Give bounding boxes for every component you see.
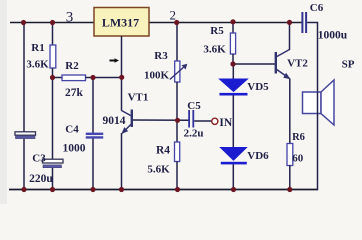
wire VD6 to ground rail — [232, 164, 234, 189]
svg-text:VD5: VD5 — [247, 81, 269, 93]
wire junction to R4 — [176, 120, 178, 142]
transistor Q1 VT1 (9014) — [121, 77, 132, 189]
svg-text:2: 2 — [169, 7, 176, 22]
wire C3 bottom — [52, 168, 54, 190]
wire C5 to IN terminal — [194, 120, 211, 122]
wire R1 bottom to junction — [52, 68, 54, 159]
svg-text:R4: R4 — [156, 144, 170, 156]
speaker SP — [303, 80, 335, 125]
node dot ground 7 — [287, 187, 292, 192]
op-amp U1 LM317 regulator box — [94, 8, 149, 37]
svg-text:60: 60 — [292, 152, 304, 164]
node dot ground 1 — [21, 187, 26, 192]
diode VD6 — [221, 148, 247, 165]
wire VT1 emitter vertical — [121, 133, 123, 190]
collector diagonal — [276, 50, 290, 58]
svg-text:R1: R1 — [31, 42, 44, 54]
emitter arrowhead — [121, 127, 128, 134]
wire R2 right to ADJ junction — [86, 77, 124, 79]
resistor R3 (adjustable) — [170, 61, 188, 82]
pin 1 arrow mark — [110, 58, 120, 63]
diode VD5 — [220, 79, 248, 96]
resistor R2 — [62, 75, 86, 81]
wire R1 column top — [52, 23, 54, 46]
resistor R1 — [50, 45, 56, 68]
svg-text:R3: R3 — [154, 50, 168, 62]
wire R6 bottom to ground rail — [289, 166, 291, 190]
wire VD5 to VD6 — [232, 96, 234, 148]
wire R2 row (y=77.5) — [53, 77, 63, 79]
wire VT2 emitter vertical — [289, 79, 291, 144]
node dot R2-C4 junction — [90, 75, 95, 80]
emitter diagonal — [122, 124, 132, 134]
svg-text:LM317: LM317 — [102, 16, 139, 30]
svg-text:3: 3 — [66, 9, 74, 25]
resistor R6 — [287, 144, 293, 166]
node dot ground 3 — [90, 187, 95, 192]
node dot top rail B — [50, 20, 55, 25]
wire base row to VT2 — [233, 63, 275, 65]
wire R3 bottom to junction — [176, 82, 178, 120]
wire top rail left segment — [10, 22, 94, 24]
svg-text:R5: R5 — [210, 25, 224, 37]
node dot ADJ junction — [119, 75, 124, 80]
svg-text:SP: SP — [342, 59, 355, 71]
transistor Q2 VT2 — [276, 23, 291, 144]
node dot ground 4 — [119, 187, 124, 192]
node dot R5-base junction — [230, 61, 235, 66]
svg-text:VT2: VT2 — [287, 57, 308, 69]
capacitor C6 — [301, 12, 307, 33]
node dot R1-R2 junction — [50, 75, 55, 80]
svg-text:9014: 9014 — [103, 115, 126, 127]
collector diagonal — [122, 111, 132, 117]
node dot ground 6 — [231, 187, 236, 192]
svg-text:R6: R6 — [292, 132, 305, 143]
node dot top rail E — [287, 20, 292, 25]
svg-text:100K: 100K — [144, 70, 170, 82]
base bar — [275, 52, 277, 74]
svg-text:5.6K: 5.6K — [147, 163, 170, 175]
capacitor C3 — [43, 159, 64, 168]
wire top rail right segment — [149, 22, 302, 24]
svg-text:27k: 27k — [65, 87, 84, 99]
node dot top rail C — [174, 20, 179, 25]
svg-text:C6: C6 — [310, 2, 324, 14]
svg-text:C3: C3 — [32, 152, 46, 164]
svg-text:220u: 220u — [29, 173, 53, 185]
svg-text:3.6K: 3.6K — [26, 58, 49, 70]
wire VT1 collector vertical — [121, 77, 123, 111]
svg-text:VT1: VT1 — [128, 91, 149, 103]
node dot ground 5 — [175, 187, 180, 192]
resistor R5 — [230, 33, 235, 54]
wire R5 column from top rail — [232, 23, 234, 34]
wire R5 bottom to base junction — [232, 54, 234, 64]
node dot input junction — [175, 118, 180, 123]
svg-text:VD6: VD6 — [247, 150, 269, 162]
capacitor C5 — [188, 110, 194, 128]
emitter diagonal — [276, 69, 290, 79]
node dot ground 2 — [50, 187, 55, 192]
wire bottom rail (ground) — [9, 189, 318, 191]
wire left column upper (x=24) — [23, 23, 25, 133]
svg-text:IN: IN — [219, 117, 232, 129]
node dot top rail D — [230, 19, 235, 24]
svg-text:C4: C4 — [65, 123, 79, 135]
svg-text:2.2u: 2.2u — [184, 128, 204, 140]
wire speaker to ground rail corner — [317, 114, 319, 191]
emitter arrowhead — [283, 73, 290, 80]
node dot top rail A — [21, 20, 26, 25]
wire C4 column upper — [92, 78, 94, 134]
wire VT2 collector vertical — [289, 23, 291, 51]
wire C6 output to speaker column — [307, 23, 317, 93]
wire C4 column lower — [92, 138, 94, 189]
node IN terminal circle — [212, 118, 218, 124]
wire R3 column from top rail — [176, 23, 178, 62]
svg-text:1000u: 1000u — [318, 29, 348, 41]
wire VT1 base to input junction — [133, 119, 189, 121]
left edge shading — [0, 0, 7, 204]
svg-text:C5: C5 — [187, 100, 201, 112]
svg-text:R2: R2 — [65, 60, 79, 72]
svg-text:3.6K: 3.6K — [203, 43, 226, 55]
base bar — [131, 110, 133, 128]
wire R4 bottom — [176, 162, 178, 190]
wire LM317 ADJ pin down — [121, 36, 123, 77]
wire left column lower (x=24) — [23, 139, 25, 190]
resistor R4 — [175, 142, 180, 162]
capacitor C (unlabeled, left column) — [15, 132, 36, 139]
wire junction to VD5 — [232, 64, 234, 79]
capacitor C4 — [86, 133, 103, 139]
svg-text:1000: 1000 — [63, 142, 86, 154]
